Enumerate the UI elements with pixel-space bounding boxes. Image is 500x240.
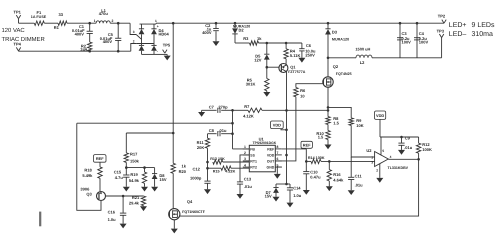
bridge label D4 HD04 <box>155 19 170 54</box>
transistor Q4 FQT1N60CTF <box>169 199 206 234</box>
net label REF at U1 <box>301 141 312 149</box>
wire long rail FB <box>77 122 233 124</box>
resistor R17 150k <box>124 133 140 168</box>
resistor R10 1.5 <box>316 125 330 145</box>
svg-text:OUT: OUT <box>267 159 275 163</box>
svg-text:400V: 400V <box>103 39 113 44</box>
capacitor C9 .01u <box>398 136 413 155</box>
svg-text:301K: 301K <box>246 82 256 87</box>
fuse F1 <box>31 10 47 25</box>
test point TP4 <box>14 41 22 51</box>
svg-text:MURA120: MURA120 <box>332 38 349 42</box>
capacitor C4 0.2u 100V <box>414 23 428 58</box>
resistor R2 249 <box>80 42 92 52</box>
test point TP3 <box>437 29 445 38</box>
wire jog to bridge AC2 <box>131 44 136 52</box>
capacitor C6 10.0u 250V <box>298 43 316 63</box>
svg-text:33: 33 <box>59 12 64 17</box>
bridge diode bottom-right <box>151 41 157 55</box>
svg-text:C9: C9 <box>405 136 411 141</box>
diode D3 MURA120 <box>325 23 349 59</box>
svg-text:R17: R17 <box>130 151 138 156</box>
svg-text:2: 2 <box>376 168 378 172</box>
wire bottom input <box>19 50 131 53</box>
svg-text:LED+: LED+ <box>449 22 467 29</box>
svg-text:LED–: LED– <box>449 31 467 38</box>
resistor R16 4.64k <box>326 161 344 191</box>
inductor L2 1500 uH <box>328 46 372 65</box>
resistor R3 1k <box>243 36 262 45</box>
wire bridge negative to TP5 and ground <box>156 53 167 55</box>
svg-text:C14: C14 <box>293 186 301 191</box>
resistor R21 29.4k <box>129 195 147 211</box>
svg-text:REF: REF <box>267 147 275 151</box>
wire AC2 into bridge <box>136 43 154 45</box>
net label VDD at U1 <box>271 121 287 130</box>
svg-text:R13 10K: R13 10K <box>210 157 225 161</box>
svg-text:100K: 100K <box>422 147 432 152</box>
bridge diode top-left <box>139 24 145 40</box>
svg-text:150k: 150k <box>130 158 140 163</box>
transistor Q1 FZT7577A <box>279 64 306 75</box>
svg-text:R14 100K: R14 100K <box>308 156 325 160</box>
svg-text:C7: C7 <box>209 104 215 109</box>
zener D5 12V <box>254 43 269 68</box>
net label VDD at comparator <box>375 111 386 137</box>
ground U1 GND pin5 <box>274 167 282 179</box>
wire rail to R17 <box>126 132 174 135</box>
wire Q3 base from FB rail <box>77 123 101 210</box>
svg-text:1: 1 <box>371 155 373 159</box>
svg-text:GND: GND <box>267 166 275 170</box>
svg-text:1.0u: 1.0u <box>293 193 302 198</box>
test point TP5 <box>163 42 171 53</box>
net label REF at Q3 <box>94 155 107 167</box>
svg-text:.01u: .01u <box>244 184 253 189</box>
capacitor C12 1000p <box>190 166 211 194</box>
wire Q1 base to D5 node <box>267 66 279 68</box>
svg-text:5.49k: 5.49k <box>82 173 93 178</box>
svg-text:4: 4 <box>244 163 246 167</box>
wire bias node <box>125 166 155 169</box>
svg-text:1A FUSE: 1A FUSE <box>31 15 47 19</box>
resistor R8 1.5 <box>326 107 340 125</box>
svg-text:7: 7 <box>277 151 279 155</box>
wire to R3 <box>235 42 250 44</box>
capacitor C3 0.2u 100V <box>397 23 411 58</box>
resistor R13 10K <box>206 157 249 164</box>
svg-text:R20: R20 <box>179 169 187 174</box>
svg-text:U2: U2 <box>366 148 372 153</box>
test point TP1 <box>14 9 22 23</box>
svg-text:REF: REF <box>96 156 104 161</box>
svg-text:15V: 15V <box>265 194 272 199</box>
resistor R19 54.9k <box>129 168 148 192</box>
svg-text:R3: R3 <box>243 36 249 41</box>
svg-text:2: 2 <box>112 19 114 23</box>
svg-text:4.12K: 4.12K <box>243 114 254 119</box>
wire rectified bus <box>156 22 444 25</box>
svg-text:10: 10 <box>300 94 305 99</box>
svg-text:R18: R18 <box>84 168 92 173</box>
svg-text:2: 2 <box>133 39 135 43</box>
svg-text:D3: D3 <box>332 29 338 34</box>
wire comparator output to R12 and Q4 gate <box>180 158 420 216</box>
capacitor C15 4.7u <box>114 168 130 192</box>
svg-text:1.0u: 1.0u <box>108 217 117 222</box>
resistor R1 33 <box>54 12 67 30</box>
svg-text:1.5: 1.5 <box>333 121 339 126</box>
wire R7 to source divider <box>262 109 328 111</box>
svg-text:VDD: VDD <box>273 122 281 127</box>
svg-text:.01u: .01u <box>355 182 364 187</box>
svg-text:C15: C15 <box>114 169 122 174</box>
bridge diode bottom-left <box>139 41 145 55</box>
svg-text:R15: R15 <box>213 170 220 174</box>
svg-text:VDD: VDD <box>376 113 384 118</box>
wire VDD vertical from Q1 collector to U1 pin7 <box>285 73 288 185</box>
diode D2 MURA120 <box>232 23 250 43</box>
svg-text:RT2: RT2 <box>250 166 257 170</box>
svg-text:.01u: .01u <box>218 128 227 133</box>
wire FB node vertical <box>231 109 234 149</box>
resistor R5 301K <box>246 67 270 97</box>
svg-text:VDD: VDD <box>267 153 275 157</box>
svg-text:Q2: Q2 <box>333 64 339 69</box>
svg-text:29.4k: 29.4k <box>129 201 140 206</box>
svg-text:1: 1 <box>155 19 157 23</box>
bridge diode top-right <box>151 24 157 40</box>
IC U1 TPS92001DGK <box>243 136 282 172</box>
transistor Q2 FQT4N25 <box>323 58 352 108</box>
wire VDD source node <box>327 106 330 109</box>
svg-text:TPS92001DGK: TPS92001DGK <box>253 141 277 145</box>
svg-text:L2: L2 <box>360 60 365 65</box>
capacitor C2 .1u 400V <box>202 23 219 46</box>
inductor L1 470u <box>94 8 114 23</box>
svg-text:TP1: TP1 <box>14 9 22 14</box>
wire <box>67 22 96 25</box>
svg-text:Q1: Q1 <box>290 64 296 69</box>
wire REF to R14 <box>305 149 308 163</box>
svg-text:FQT4N25: FQT4N25 <box>336 72 352 76</box>
wire gate Q2 from R6 <box>296 84 323 88</box>
wire Q3 collector to R21 <box>106 195 144 198</box>
wire to R9 <box>328 107 351 118</box>
svg-text:20K: 20K <box>197 145 204 150</box>
svg-text:270p: 270p <box>218 104 228 109</box>
wire R9 to comparator input+ <box>351 125 374 157</box>
svg-text:54.9k: 54.9k <box>129 178 140 183</box>
bridge rectifier D4 HD04 <box>140 24 157 54</box>
svg-text:1500 uH: 1500 uH <box>355 46 370 51</box>
capacitor C5 0.01uF 400V <box>100 23 122 51</box>
resistor R7 4.12K <box>243 104 262 119</box>
svg-text:1: 1 <box>244 145 246 149</box>
svg-text:TP3: TP3 <box>437 29 445 34</box>
resistor R9 10K <box>349 118 364 128</box>
svg-text:TP2: TP2 <box>438 13 446 18</box>
svg-text:FQT1N60CTF: FQT1N60CTF <box>182 210 206 214</box>
capacitor C14 1.0u <box>276 183 302 208</box>
resistor R6 10 <box>294 88 306 99</box>
resistor R15 4.22K <box>206 162 249 174</box>
logo bar <box>39 212 41 227</box>
ground below R10 <box>325 145 332 150</box>
svg-text:4.64k: 4.64k <box>333 177 344 182</box>
svg-text:120 VAC: 120 VAC <box>2 27 26 34</box>
svg-text:8: 8 <box>277 145 279 149</box>
zener D8 15V <box>151 168 167 192</box>
svg-text:C6: C6 <box>306 43 312 48</box>
svg-text:REF: REF <box>303 142 311 147</box>
svg-text:Q3: Q3 <box>86 191 92 196</box>
wire feedback R7 line <box>233 109 249 111</box>
resistor R4 5.11K <box>284 43 301 64</box>
wire bridge positive output <box>155 22 157 25</box>
svg-text:TRIAC DIMMER: TRIAC DIMMER <box>2 36 45 43</box>
svg-text:100V: 100V <box>402 40 412 45</box>
svg-text:1k: 1k <box>257 36 262 41</box>
svg-text:C8: C8 <box>209 128 215 133</box>
transistor Q3 3906 <box>80 187 105 201</box>
svg-text:1k: 1k <box>182 164 187 169</box>
wire R6 to U1 OUT pin <box>275 97 296 161</box>
capacitor C8 .01u <box>208 128 233 136</box>
wire <box>110 22 130 25</box>
svg-text:TP4: TP4 <box>14 41 22 46</box>
svg-text:TP5: TP5 <box>163 42 171 47</box>
capacitor C16 1.0u <box>108 196 127 228</box>
svg-text:FZT7577A: FZT7577A <box>288 70 306 74</box>
svg-text:R7: R7 <box>244 104 250 109</box>
svg-text:Q4: Q4 <box>187 199 193 204</box>
test point TP2 <box>438 13 446 23</box>
svg-text:.01u: .01u <box>404 145 413 150</box>
svg-text:R6: R6 <box>300 88 306 93</box>
svg-text:R21: R21 <box>132 195 140 200</box>
svg-text:0.47u: 0.47u <box>310 175 321 180</box>
svg-text:C16: C16 <box>108 210 116 215</box>
resistor R11 20K <box>197 134 210 162</box>
svg-text:1.5: 1.5 <box>318 135 324 140</box>
wire R3 to C6 <box>259 42 302 45</box>
svg-text:5: 5 <box>382 149 384 153</box>
svg-text:R1: R1 <box>54 25 60 30</box>
svg-text:310ma: 310ma <box>472 31 494 38</box>
comparator U2 TL331KDBV <box>366 137 408 183</box>
capacitor C11 .01u <box>348 157 363 195</box>
svg-text:4.7u: 4.7u <box>115 175 124 180</box>
svg-text:C12: C12 <box>193 166 201 171</box>
svg-text:1000p: 1000p <box>190 175 202 180</box>
wire R20 to Q4 <box>172 173 174 209</box>
svg-text:HD04: HD04 <box>159 31 170 36</box>
svg-text:5.11K: 5.11K <box>290 53 301 58</box>
capacitor C13 .01u <box>237 177 253 199</box>
svg-text:400V: 400V <box>202 30 212 35</box>
wire jog to bridge AC1 <box>130 23 136 34</box>
svg-text:3: 3 <box>244 157 246 161</box>
svg-text:RT1: RT1 <box>250 159 257 163</box>
svg-text:400V: 400V <box>75 31 85 36</box>
wire top input <box>19 22 35 24</box>
svg-text:15V: 15V <box>159 177 166 182</box>
wire L2 to LED return <box>372 38 442 58</box>
wire <box>44 22 58 24</box>
svg-text:1: 1 <box>94 19 96 23</box>
label 120 VAC TRIAC DIMMER <box>2 27 45 43</box>
svg-text:C11: C11 <box>355 174 363 179</box>
svg-text:100V: 100V <box>419 40 429 45</box>
svg-text:6: 6 <box>277 157 279 161</box>
svg-text:470u: 470u <box>99 11 109 16</box>
resistor R14 100K <box>306 156 374 164</box>
svg-text:+: + <box>157 24 159 28</box>
wire VDD rail comparator <box>380 136 419 139</box>
zener D7 15V <box>265 184 280 202</box>
svg-text:3: 3 <box>371 160 373 164</box>
svg-text:3: 3 <box>133 30 135 34</box>
resistor R18 5.49k <box>82 167 102 191</box>
svg-text:FB: FB <box>250 147 255 151</box>
resistor R20 1k <box>171 163 187 174</box>
capacitor C10 0.47u <box>303 161 321 194</box>
svg-text:4.22K: 4.22K <box>225 170 235 174</box>
resistor R12 100K <box>416 137 432 159</box>
wire U1 REF pin8 <box>282 148 307 150</box>
svg-text:10K: 10K <box>356 123 363 128</box>
svg-text:4: 4 <box>390 155 392 159</box>
svg-text:TL331KDBV: TL331KDBV <box>388 166 409 170</box>
capacitor C7 270p <box>198 104 232 117</box>
wire FB to U1 pin1 <box>233 148 250 150</box>
wire AC1 into bridge <box>136 35 141 40</box>
svg-text:D2: D2 <box>239 28 245 33</box>
capacitor C1 0.01uF 400V <box>72 23 93 42</box>
svg-text:12V: 12V <box>254 57 261 62</box>
svg-text:SS: SS <box>250 153 255 157</box>
wire SS to C13 <box>240 155 249 182</box>
svg-text:250V: 250V <box>305 52 315 57</box>
svg-text:C13: C13 <box>244 177 252 182</box>
ground at bridge return <box>164 54 171 60</box>
svg-text:9 LEDs: 9 LEDs <box>472 22 495 29</box>
svg-text:R16: R16 <box>333 172 341 177</box>
svg-text:C10: C10 <box>310 169 318 174</box>
svg-text:R19: R19 <box>130 172 138 177</box>
wire high-voltage drop to bleeder <box>172 23 174 163</box>
